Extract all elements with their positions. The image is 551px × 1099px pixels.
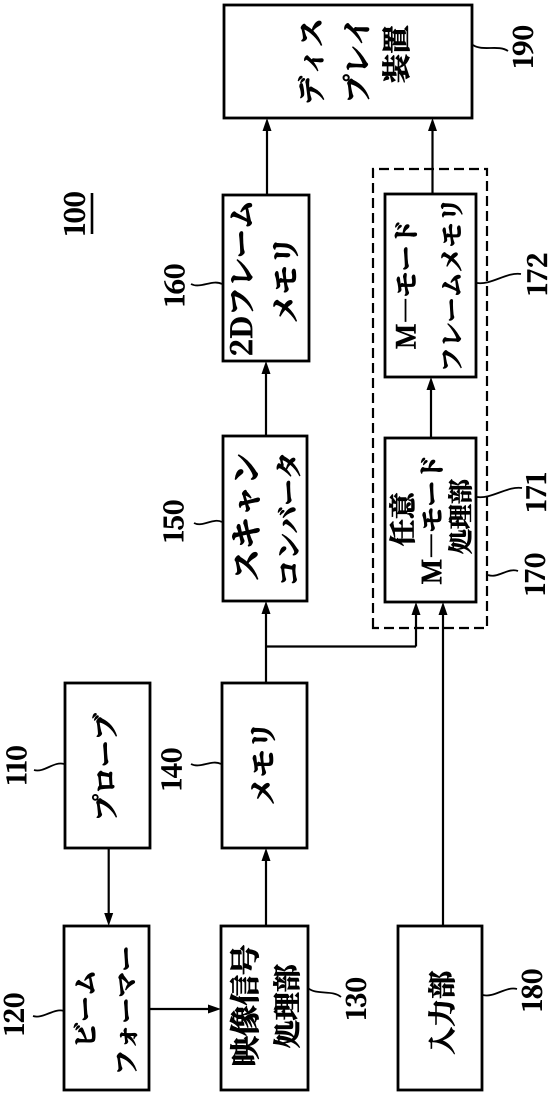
text display line1 bbox=[298, 21, 324, 102]
wire 172 to 190 bbox=[431, 129, 433, 194]
text 171 line2 bbox=[421, 458, 443, 584]
leader to 170 bbox=[488, 570, 518, 576]
text 120 line1 bbox=[74, 973, 95, 1044]
text display line2 bbox=[343, 23, 369, 99]
label 130 bbox=[346, 978, 366, 1018]
label 100 underline bbox=[91, 193, 94, 234]
box 120 beam former bbox=[64, 926, 149, 1090]
box 110 probe bbox=[65, 683, 150, 848]
label 120 bbox=[4, 994, 24, 1034]
leader to 180 bbox=[483, 988, 517, 995]
text 140 bbox=[251, 728, 275, 804]
text 110 bbox=[92, 713, 116, 817]
leader to 160 bbox=[191, 283, 222, 286]
text 130 line2 bbox=[273, 965, 299, 1048]
label 110 bbox=[6, 746, 26, 783]
label 180 bbox=[522, 970, 542, 1010]
label 140 bbox=[161, 749, 181, 789]
wire 150 to 160 bbox=[265, 372, 267, 436]
leader to 172 bbox=[477, 274, 521, 283]
wire 180 to 171 bbox=[442, 613, 444, 926]
text 171 line1 bbox=[389, 493, 414, 545]
wire 140 to 150 bbox=[265, 612, 267, 683]
arrowhead into 172 bbox=[427, 377, 436, 390]
label 100 bbox=[64, 192, 85, 234]
text 150 line2 bbox=[277, 455, 300, 583]
wire 171 to 172 bbox=[430, 388, 432, 438]
arrowhead into 171 lower bbox=[439, 602, 448, 615]
arrowhead into 120 bbox=[104, 913, 113, 926]
leader to 120 bbox=[33, 1010, 64, 1016]
wire 110 to 120 bbox=[108, 848, 110, 915]
box 171 optional M-mode processor bbox=[385, 438, 476, 602]
leader to 171 bbox=[477, 488, 522, 497]
text 180 bbox=[428, 971, 454, 1054]
label 150 bbox=[163, 501, 183, 541]
label 190 bbox=[513, 26, 533, 66]
leader to 140 bbox=[191, 763, 221, 766]
box 190 display device bbox=[224, 5, 472, 118]
box 140 memory bbox=[222, 683, 307, 848]
arrowhead into 160 bbox=[262, 361, 271, 374]
arrowhead into 171 upper bbox=[412, 602, 421, 615]
text 172 line2 bbox=[441, 203, 462, 368]
arrowhead into 140 bbox=[262, 848, 271, 861]
box 160 2D frame memory bbox=[223, 195, 309, 361]
wire 160 to 190 bbox=[266, 129, 268, 195]
text 160 line1 bbox=[230, 203, 253, 354]
wire branch to 171 bbox=[415, 613, 417, 647]
leader to 190 bbox=[473, 45, 508, 51]
text display line3 bbox=[382, 26, 409, 82]
text 172 line1 bbox=[395, 223, 417, 349]
dashed group box 170 bbox=[373, 169, 487, 628]
box 150 scan converter bbox=[223, 436, 307, 601]
arrowhead into 150 bbox=[262, 601, 271, 614]
label 172 bbox=[527, 254, 547, 294]
wire 120 to 130 bbox=[149, 1008, 210, 1010]
box 180 input unit bbox=[398, 926, 482, 1090]
text 160 line2 bbox=[273, 243, 298, 321]
label 171 bbox=[526, 473, 546, 510]
box 172 M-mode frame memory bbox=[385, 194, 476, 377]
box 130 video signal processor bbox=[221, 926, 308, 1090]
leader to 110 bbox=[34, 763, 64, 770]
wire branch junction down bbox=[265, 645, 416, 647]
text 120 line2 bbox=[117, 948, 137, 1072]
wire 130 to 140 bbox=[265, 859, 267, 926]
text 130 line1 bbox=[230, 945, 259, 1064]
arrowhead into 130 bbox=[208, 1005, 221, 1014]
arrowhead into 190 from 172 bbox=[428, 118, 437, 131]
leader to 150 bbox=[194, 521, 222, 525]
text 171 line3 bbox=[448, 479, 472, 553]
arrowhead into 190 from 160 bbox=[263, 118, 272, 131]
label 170 bbox=[525, 554, 545, 594]
leader to 130 bbox=[308, 988, 341, 997]
text 150 line1 bbox=[232, 455, 259, 579]
label 160 bbox=[164, 265, 184, 305]
